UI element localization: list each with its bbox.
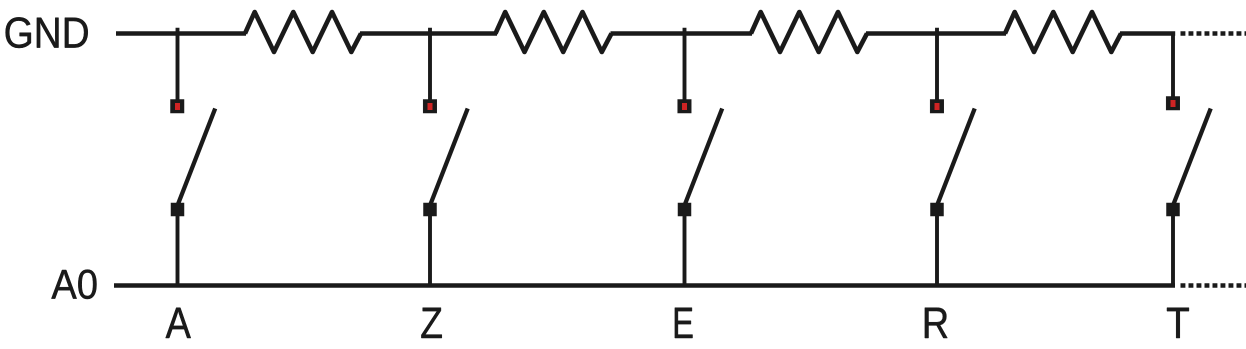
wire switch R top stub [935,28,939,100]
switch A arm [177,109,216,209]
switch T arm [1172,109,1211,209]
resistor R4 [1005,12,1121,52]
wire GND rail segment 1 [116,31,246,35]
wire GND dotted continuation [1181,31,1246,35]
wire switch Z top stub [428,28,432,100]
resistor R1 [245,12,361,52]
wire switch T top stub [1171,34,1175,98]
net label GND [6,17,88,48]
wire GND rail segment 4 [866,31,1006,35]
switch Z fixed contact terminal [423,100,437,114]
wire switch A to A0 [176,214,180,286]
switch E arm [684,109,723,209]
wire switch E top stub [683,28,687,100]
label switch A [166,308,191,338]
wire switch E to A0 [683,214,687,286]
switch T pivot node [1167,203,1180,216]
switch A fixed contact terminal [171,100,185,114]
label switch T [1167,308,1189,338]
switch R arm [936,109,975,209]
wire GND rail segment 3 [611,31,753,35]
resistor R2 [496,12,612,52]
wire A0 dotted continuation [1181,283,1246,287]
wire switch A top stub [176,28,180,100]
switch T fixed contact terminal [1166,97,1180,111]
wire GND rail segment 5 [1120,31,1175,35]
label switch Z [421,308,441,338]
wire A0 bus [114,283,1175,287]
resistor R3 [751,12,867,52]
switch R fixed contact terminal [930,100,944,114]
switch Z pivot node [424,203,437,216]
switch E fixed contact terminal [678,100,692,114]
wire switch T to A0 [1171,214,1175,286]
label switch E [675,308,693,338]
net label A0 [51,270,96,299]
label switch R [925,308,948,338]
switch R pivot node [931,203,944,216]
switch A pivot node [171,203,184,216]
wire switch Z to A0 [428,214,432,286]
switch E pivot node [678,203,691,216]
wire GND rail segment 2 [360,31,497,35]
switch Z arm [429,109,468,209]
wire switch R to A0 [935,214,939,286]
